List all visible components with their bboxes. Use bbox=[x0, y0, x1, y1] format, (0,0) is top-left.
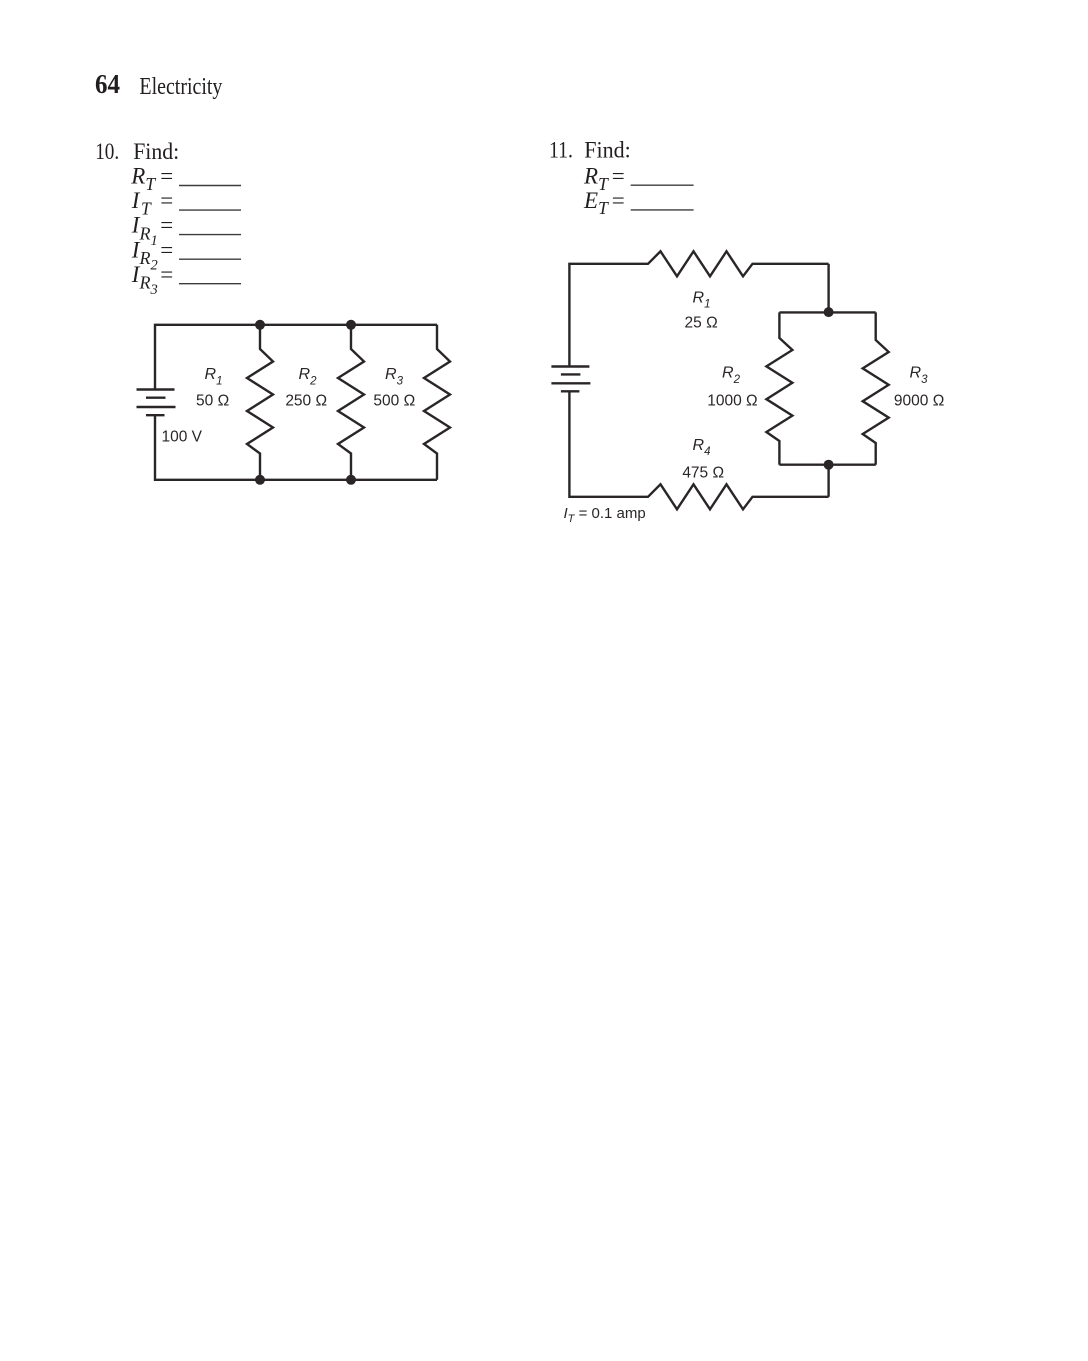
svg-text:=: = bbox=[612, 188, 625, 213]
svg-text:Electricity: Electricity bbox=[139, 74, 222, 100]
svg-text:Find:: Find: bbox=[133, 139, 179, 164]
svg-text:R1: R1 bbox=[205, 366, 223, 387]
svg-text:Find:: Find: bbox=[584, 138, 631, 163]
svg-text:R3: R3 bbox=[385, 366, 404, 387]
svg-text:R3: R3 bbox=[910, 365, 929, 386]
svg-text:R2: R2 bbox=[722, 365, 741, 386]
svg-text:R4: R4 bbox=[693, 437, 711, 458]
svg-text:50 Ω: 50 Ω bbox=[196, 393, 229, 410]
svg-text:=: = bbox=[160, 188, 173, 213]
svg-text:25 Ω: 25 Ω bbox=[685, 315, 718, 332]
svg-text:1000 Ω: 1000 Ω bbox=[707, 392, 757, 409]
svg-text:100 V: 100 V bbox=[162, 428, 203, 445]
svg-text:=: = bbox=[160, 237, 173, 262]
svg-text:475 Ω: 475 Ω bbox=[682, 464, 724, 481]
svg-text:64: 64 bbox=[95, 69, 120, 99]
svg-text:500 Ω: 500 Ω bbox=[373, 393, 415, 410]
svg-text:IT = 0.1 amp: IT = 0.1 amp bbox=[564, 505, 646, 525]
svg-text:=: = bbox=[160, 213, 173, 238]
svg-text:=: = bbox=[612, 164, 625, 189]
svg-text:=: = bbox=[160, 262, 173, 287]
svg-text:=: = bbox=[160, 164, 173, 189]
svg-text:R1: R1 bbox=[693, 289, 711, 310]
svg-text:250 Ω: 250 Ω bbox=[285, 393, 327, 410]
svg-text:9000 Ω: 9000 Ω bbox=[894, 392, 944, 409]
svg-text:10.: 10. bbox=[95, 139, 119, 164]
svg-text:R2: R2 bbox=[299, 366, 318, 387]
svg-text:11.: 11. bbox=[549, 138, 573, 163]
